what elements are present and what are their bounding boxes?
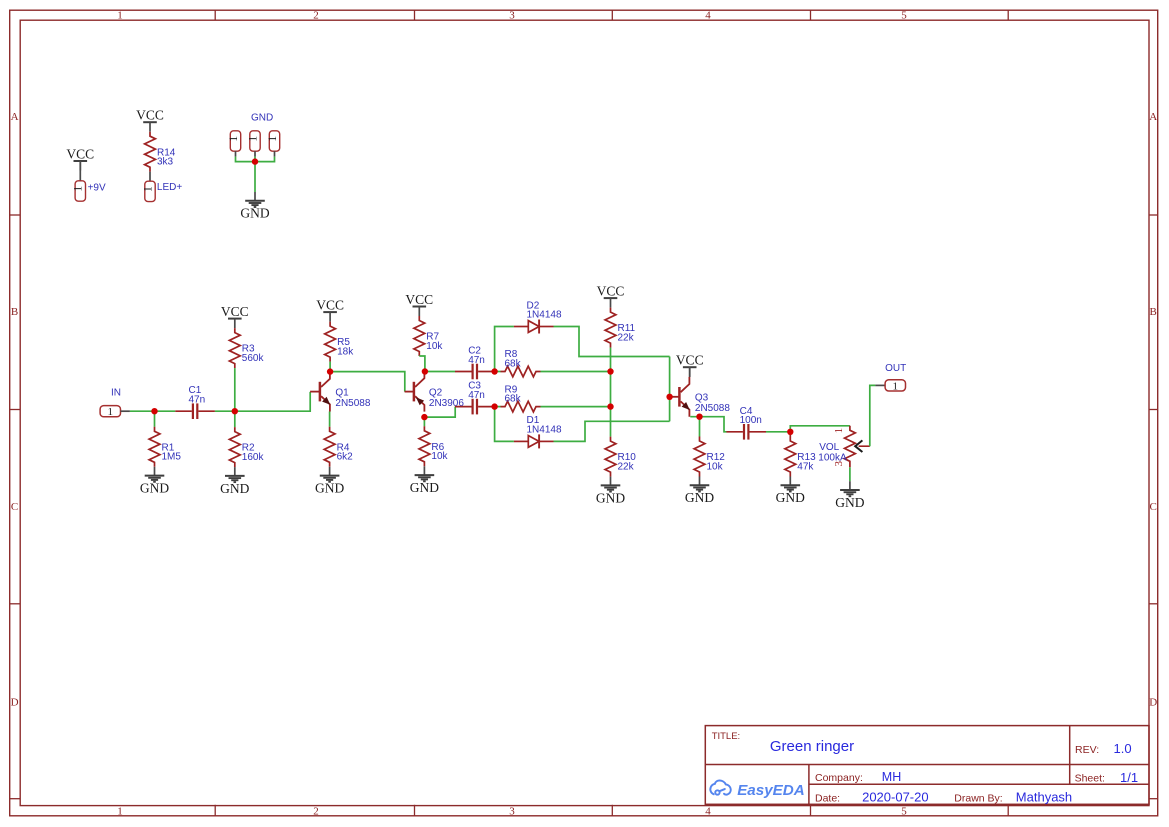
- junction node Q3 base: [666, 394, 672, 400]
- svg-text:1: 1: [73, 186, 85, 192]
- diode D1 1N4148: [514, 415, 562, 448]
- capacitor C4 100n: [726, 406, 766, 440]
- svg-text:1N4148: 1N4148: [527, 425, 562, 436]
- power flag VCC (R5): [316, 298, 344, 322]
- pin stub: [789, 432, 791, 437]
- svg-text:18k: 18k: [337, 347, 354, 358]
- svg-text:D: D: [1149, 696, 1157, 708]
- svg-text:VCC: VCC: [316, 298, 344, 313]
- junction node Q3 emitter/R12: [696, 414, 702, 420]
- svg-text:VCC: VCC: [405, 292, 433, 307]
- wire Q2 collector to C3: [424, 407, 455, 418]
- svg-text:LED+: LED+: [157, 182, 182, 193]
- connector pin LED+: [142, 181, 155, 201]
- power flag VCC (net +9V): [66, 146, 94, 170]
- title block frame: [705, 726, 1149, 805]
- pin stub: [254, 151, 256, 156]
- svg-text:MH: MH: [882, 770, 901, 784]
- ground (R10): [596, 477, 625, 506]
- svg-text:2: 2: [313, 10, 319, 22]
- transistor Q2 2N3906 (PNP): [405, 372, 465, 412]
- wire node down to D1: [495, 407, 514, 442]
- svg-text:Q1: Q1: [335, 387, 349, 398]
- svg-text:1: 1: [247, 136, 259, 142]
- svg-text:GND: GND: [251, 113, 273, 124]
- svg-text:1: 1: [108, 406, 114, 418]
- connector pin GND 1: [228, 131, 241, 151]
- junction node C2/R8/D2: [491, 368, 497, 374]
- connector pin GND 2: [247, 131, 260, 151]
- wire node to Q1 base: [235, 392, 310, 411]
- svg-text:1N4148: 1N4148: [527, 310, 562, 321]
- resistor R9 68k: [501, 384, 541, 412]
- svg-text:22k: 22k: [618, 333, 635, 344]
- junction node C4/R13/VOL: [787, 429, 793, 435]
- VOL wiper arm: [859, 445, 870, 447]
- connector pin GND 3: [267, 131, 280, 151]
- svg-text:22k: 22k: [618, 462, 635, 473]
- svg-text:1/1: 1/1: [1120, 770, 1138, 785]
- wire Q2 collector to R6: [423, 417, 425, 426]
- ground (R1): [140, 467, 169, 496]
- svg-text:Q3: Q3: [695, 393, 709, 404]
- svg-text:2N5088: 2N5088: [335, 398, 370, 409]
- svg-text:1: 1: [833, 428, 845, 434]
- svg-text:C: C: [11, 501, 18, 513]
- junction node Q2 collector: [421, 414, 427, 420]
- pin stub: [274, 151, 276, 156]
- wire gnd header bus: [236, 157, 275, 162]
- svg-text:1: 1: [117, 805, 123, 817]
- svg-text:1: 1: [142, 186, 154, 192]
- power flag VCC (R7): [405, 292, 433, 316]
- wire node to C1: [155, 410, 176, 412]
- border column numbers: [117, 10, 907, 818]
- svg-text:47k: 47k: [797, 461, 814, 472]
- resistor R1 1M5: [149, 427, 181, 467]
- svg-text:160k: 160k: [242, 452, 265, 463]
- wire node to R9: [495, 406, 501, 408]
- transistor Q3 2N5088 (NPN): [670, 377, 731, 417]
- wire VOL wiper to OUT: [870, 385, 876, 446]
- svg-text:68k: 68k: [505, 393, 522, 404]
- wire R11 to R10: [610, 348, 612, 437]
- junction node C3/R9/D1: [491, 403, 497, 409]
- connector pin +9V: [73, 181, 86, 201]
- border column ticks bottom: [215, 805, 1008, 816]
- power flag VCC (R3): [221, 304, 249, 328]
- wire R8 to node: [541, 371, 611, 373]
- svg-text:10k: 10k: [431, 451, 448, 462]
- power flag VCC (R11): [597, 284, 625, 308]
- border row ticks right: [1149, 215, 1158, 799]
- svg-text:6k2: 6k2: [337, 452, 354, 463]
- svg-text:GND: GND: [140, 481, 169, 496]
- resistor R7 10k: [414, 316, 444, 356]
- svg-text:Company:: Company:: [815, 772, 863, 784]
- svg-text:B: B: [1150, 306, 1157, 318]
- resistor R10 22k: [605, 437, 636, 477]
- junction node gnd header: [252, 158, 258, 164]
- wire node to R8: [495, 371, 501, 373]
- svg-text:GND: GND: [240, 206, 269, 221]
- wire R7 jog to node: [419, 356, 425, 372]
- svg-text:VCC: VCC: [221, 304, 249, 319]
- wire node to R1: [154, 411, 156, 427]
- junction node IN/R1/C1: [151, 408, 157, 414]
- svg-text:47n: 47n: [189, 395, 206, 406]
- wire R3 to node: [234, 368, 236, 411]
- svg-text:+9V: +9V: [88, 182, 106, 193]
- svg-text:1: 1: [117, 10, 123, 22]
- svg-text:3k3: 3k3: [157, 157, 174, 168]
- ground (R12): [685, 477, 714, 506]
- wire D2 to Q3 base net: [554, 327, 670, 357]
- svg-text:GND: GND: [315, 481, 344, 496]
- ground (R2): [220, 467, 249, 496]
- border column ticks top: [215, 10, 1008, 20]
- svg-text:GND: GND: [596, 490, 625, 505]
- wire R5 to Q1 collector: [329, 362, 331, 372]
- connector OUT: [885, 380, 905, 393]
- svg-text:VOL: VOL: [819, 442, 839, 453]
- resistor R6 10k: [419, 426, 449, 466]
- EasyEDA logo: [710, 781, 804, 800]
- svg-text:VCC: VCC: [136, 108, 164, 123]
- svg-text:GND: GND: [685, 490, 714, 505]
- svg-text:B: B: [11, 306, 18, 318]
- svg-text:3: 3: [509, 10, 515, 22]
- capacitor C1 47n: [175, 385, 215, 419]
- svg-text:1: 1: [893, 380, 899, 392]
- pin stub: [79, 161, 81, 181]
- svg-text:68k: 68k: [505, 358, 522, 369]
- svg-text:TITLE:: TITLE:: [712, 731, 741, 742]
- wire IN to node: [130, 410, 155, 412]
- svg-text:Q2: Q2: [429, 387, 443, 398]
- svg-text:VCC: VCC: [66, 146, 94, 161]
- svg-text:GND: GND: [410, 480, 439, 495]
- svg-text:Drawn By:: Drawn By:: [954, 792, 1002, 804]
- wire Q3 base vertical: [669, 357, 671, 422]
- wire VOL pin3 to ground: [849, 467, 851, 481]
- svg-text:47n: 47n: [468, 355, 485, 366]
- wire node to R2: [234, 411, 236, 427]
- junction node R9/R10: [607, 403, 613, 409]
- wire node up to D2: [495, 327, 514, 372]
- capacitor C2 47n: [455, 346, 495, 380]
- svg-text:4: 4: [705, 805, 711, 817]
- svg-text:1.0: 1.0: [1114, 741, 1132, 756]
- capacitor C3 47n: [455, 381, 495, 415]
- svg-text:OUT: OUT: [885, 363, 906, 374]
- resistor R2 160k: [229, 427, 264, 467]
- ground (VOL): [835, 481, 864, 510]
- svg-text:47n: 47n: [468, 390, 485, 401]
- resistor R13 47k: [785, 437, 816, 477]
- svg-text:1: 1: [267, 136, 279, 142]
- pin stub: [689, 367, 691, 377]
- pin stub: [875, 384, 885, 386]
- diode D2 1N4148: [514, 300, 562, 333]
- wire D1 to Q3 base net: [554, 421, 670, 441]
- wire gnd header drop: [254, 157, 256, 192]
- svg-text:GND: GND: [220, 481, 249, 496]
- wire node to R12: [699, 417, 701, 437]
- resistor R4 6k2: [324, 427, 353, 467]
- pin stub: [149, 172, 151, 182]
- svg-text:1: 1: [228, 136, 240, 142]
- ground (header): [240, 192, 269, 221]
- wire C1 to node: [215, 410, 235, 412]
- svg-text:100kA: 100kA: [818, 453, 847, 464]
- svg-text:Sheet:: Sheet:: [1075, 773, 1105, 785]
- ground (R13): [776, 477, 805, 506]
- wire Q1 emitter to R4: [329, 412, 331, 427]
- wire C4 to node: [766, 431, 790, 433]
- resistor R12 10k: [694, 437, 725, 477]
- resistor R5 18k: [325, 322, 355, 362]
- power flag VCC (R14 feed): [136, 108, 164, 132]
- power flag VCC (Q3): [676, 353, 704, 377]
- resistor R11 22k: [605, 308, 635, 348]
- svg-text:A: A: [1149, 111, 1157, 123]
- svg-text:2: 2: [313, 805, 319, 817]
- svg-text:560k: 560k: [242, 353, 265, 364]
- svg-text:IN: IN: [111, 387, 121, 398]
- svg-text:C: C: [1150, 501, 1157, 513]
- junction node R7/Q2 emitter/C2: [422, 368, 428, 374]
- resistor R8 68k: [501, 349, 541, 377]
- svg-text:VCC: VCC: [676, 353, 704, 368]
- pin stub: [121, 410, 130, 412]
- wire Q3 emitter to C4: [690, 417, 726, 432]
- svg-text:Green ringer: Green ringer: [770, 738, 854, 755]
- border row ticks left: [10, 215, 21, 799]
- pin stub: [235, 151, 237, 156]
- svg-text:100n: 100n: [740, 415, 762, 426]
- junction node Q1 collector: [327, 368, 333, 374]
- svg-text:VCC: VCC: [597, 284, 625, 299]
- svg-text:2N5088: 2N5088: [695, 403, 730, 414]
- border row letters: [11, 111, 1158, 708]
- junction node C1/R3/R2/Q1: [232, 408, 238, 414]
- ground (R4): [315, 467, 344, 496]
- svg-text:4: 4: [705, 10, 711, 22]
- wire node to C2: [425, 371, 455, 373]
- svg-text:Mathyash: Mathyash: [1016, 790, 1072, 805]
- svg-text:5: 5: [901, 10, 907, 22]
- potentiometer VOL 100kA: [818, 426, 870, 468]
- connector IN: [100, 406, 120, 419]
- svg-text:10k: 10k: [707, 461, 724, 472]
- svg-text:5: 5: [901, 805, 907, 817]
- svg-text:D: D: [11, 696, 19, 708]
- svg-text:Date:: Date:: [815, 792, 840, 804]
- ground (R6): [410, 466, 439, 495]
- svg-text:1M5: 1M5: [162, 452, 182, 463]
- svg-text:A: A: [11, 111, 19, 123]
- svg-text:2020-07-20: 2020-07-20: [862, 790, 929, 805]
- junction node R8/R11: [607, 368, 613, 374]
- svg-text:10k: 10k: [426, 341, 443, 352]
- resistor R14 3k3: [145, 132, 176, 172]
- wire node to VOL pin1: [790, 426, 850, 432]
- svg-text:GND: GND: [835, 495, 864, 510]
- transistor Q1 2N5088 (NPN): [310, 372, 371, 412]
- wire R9 to node: [541, 406, 611, 408]
- svg-text:GND: GND: [776, 490, 805, 505]
- svg-text:3: 3: [509, 805, 515, 817]
- resistor R3 560k: [229, 328, 264, 368]
- svg-text:EasyEDA: EasyEDA: [737, 782, 805, 799]
- wire Q1 collector to Q2 base: [330, 372, 405, 392]
- svg-text:REV:: REV:: [1075, 744, 1099, 756]
